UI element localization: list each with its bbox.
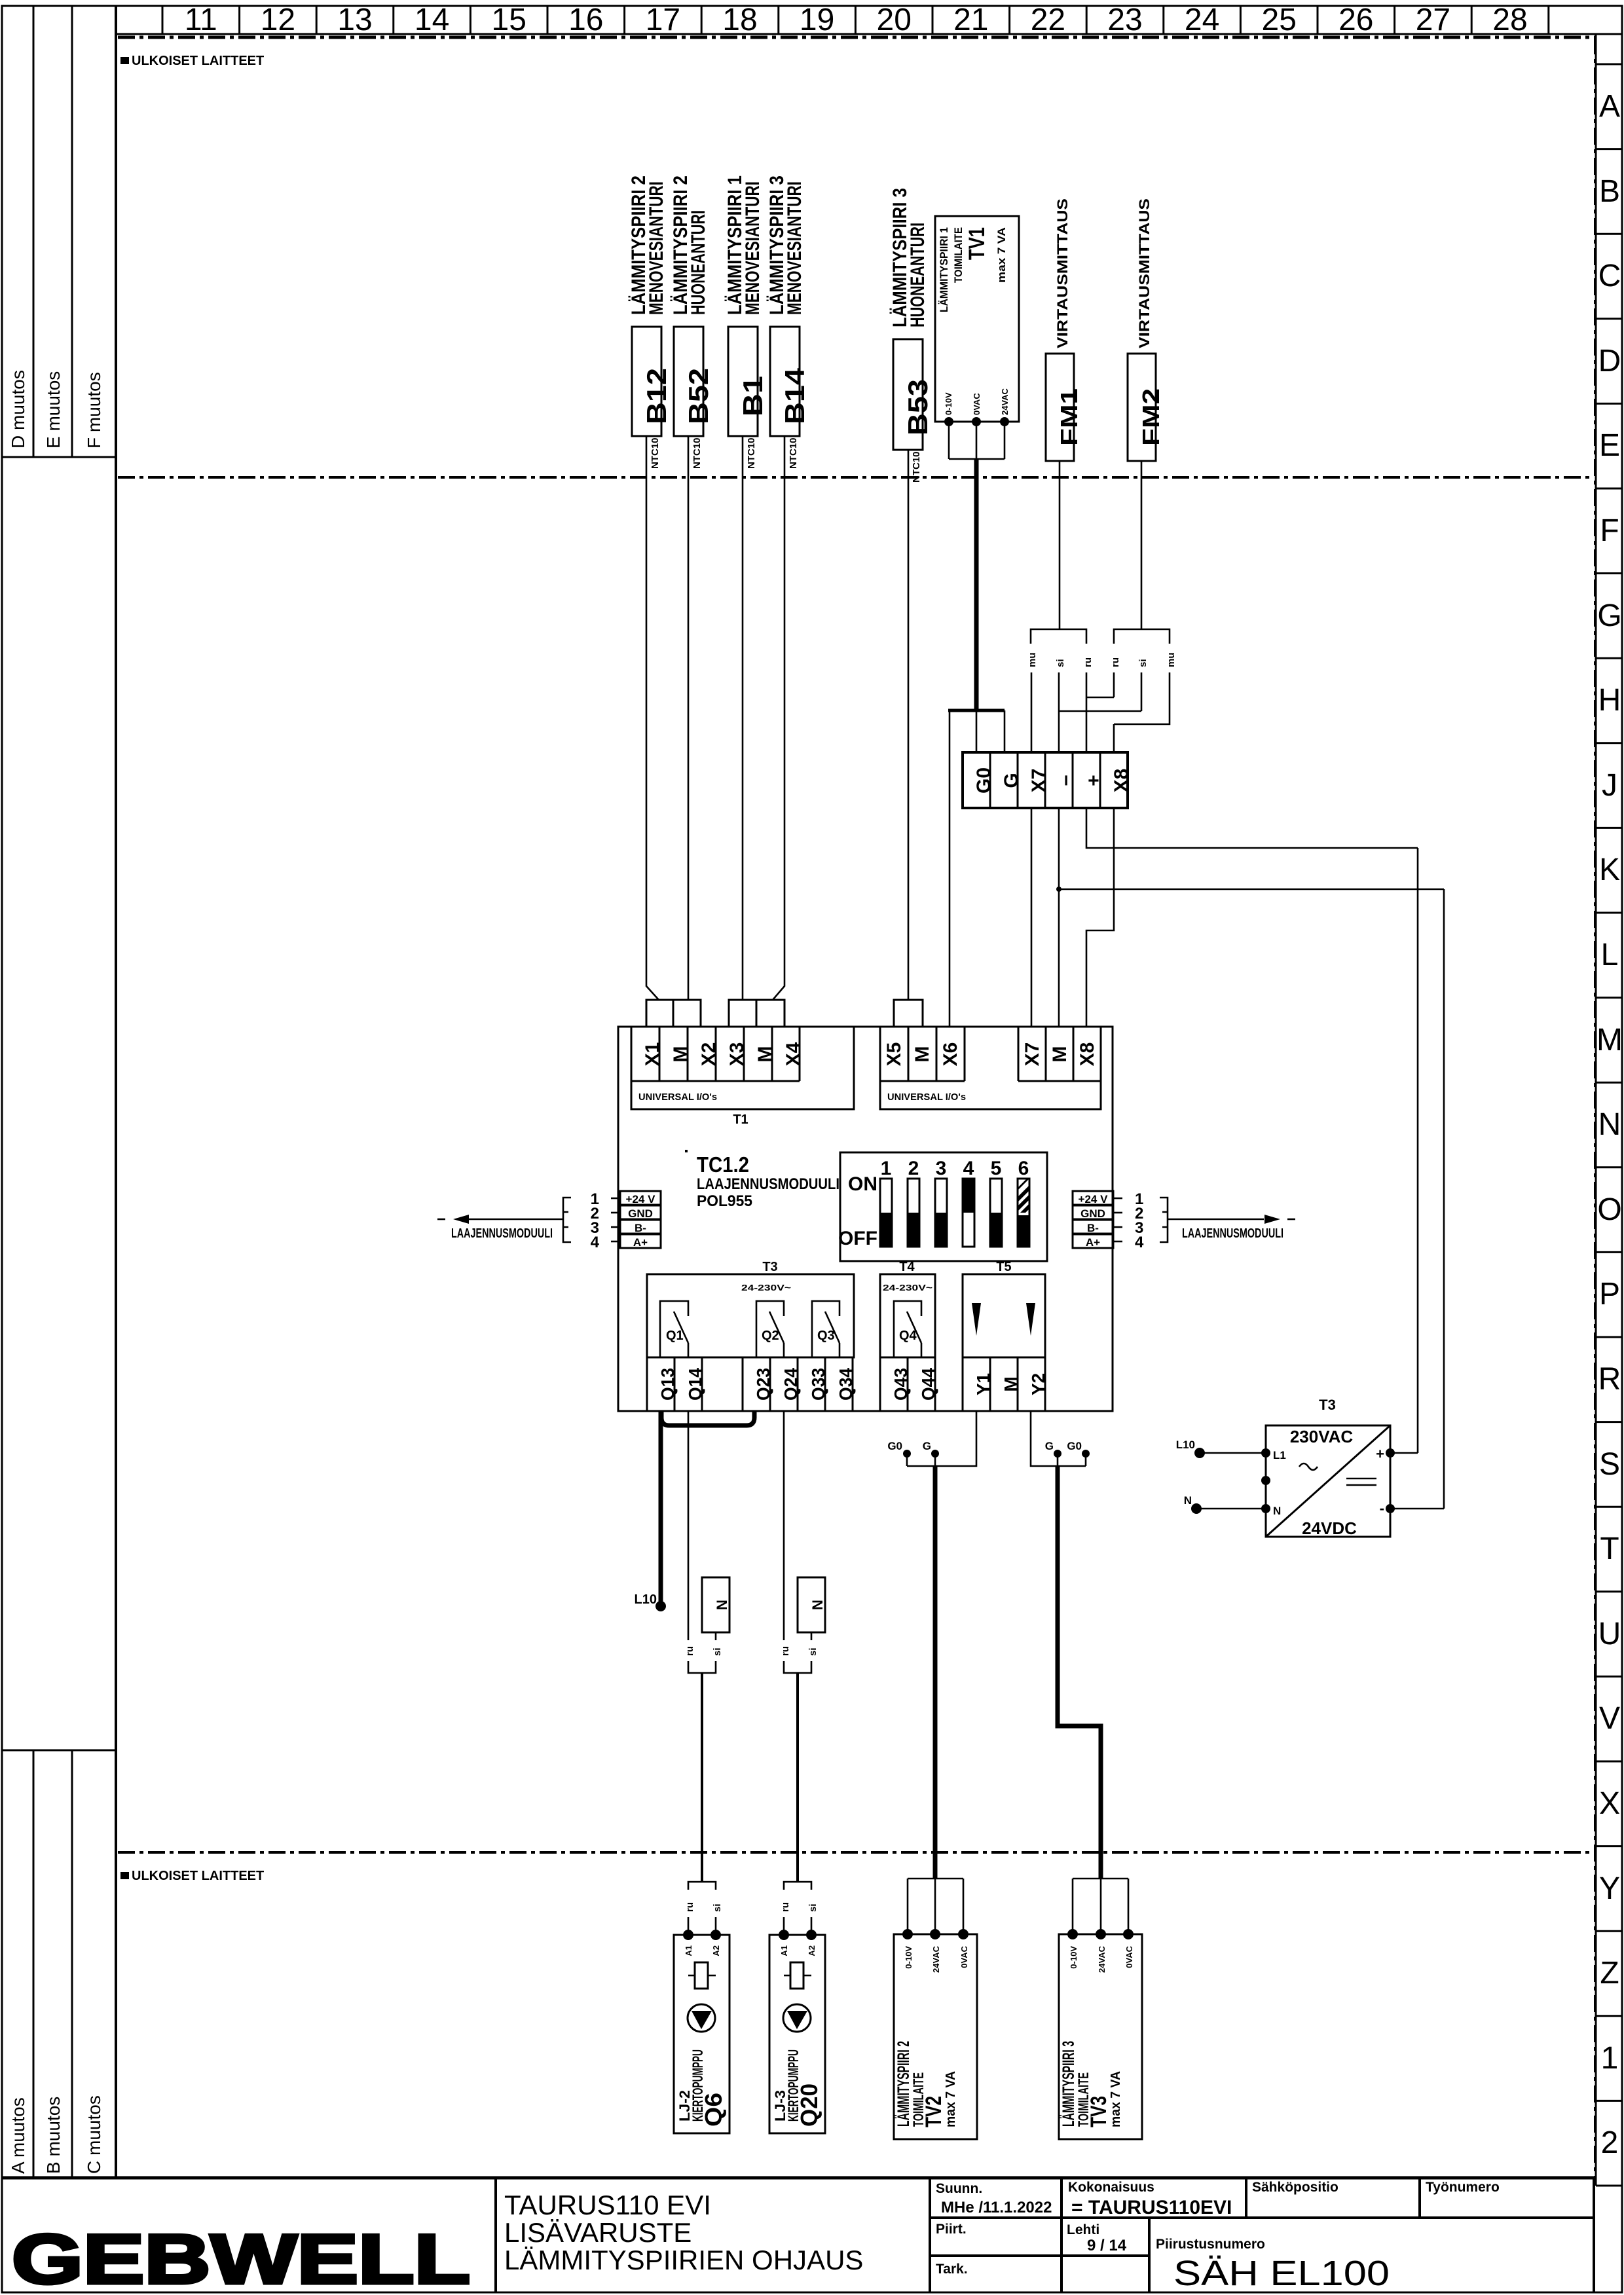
svg-text:28: 28 bbox=[1492, 3, 1527, 37]
svg-text:C: C bbox=[1598, 259, 1621, 293]
svg-text:Q24: Q24 bbox=[781, 1368, 801, 1401]
svg-text:Y2: Y2 bbox=[1028, 1373, 1048, 1395]
wire B12 to X1 bbox=[646, 436, 659, 1000]
conductor labels ru si pump2 lower bbox=[780, 1902, 819, 1912]
svg-text:X6: X6 bbox=[940, 1042, 961, 1067]
svg-text:17: 17 bbox=[646, 3, 680, 37]
svg-text:Z: Z bbox=[1600, 1956, 1619, 1991]
svg-text:Q3: Q3 bbox=[817, 1329, 835, 1343]
svg-text:M: M bbox=[670, 1046, 692, 1063]
svg-text:+: + bbox=[1376, 1446, 1384, 1462]
svg-text:FM2: FM2 bbox=[1137, 388, 1164, 446]
wires to pump1 terminals bbox=[688, 1917, 716, 1935]
wire strip X7 to module X7 bbox=[1031, 808, 1033, 1027]
svg-text:Q20: Q20 bbox=[796, 2084, 822, 2127]
svg-text:16: 16 bbox=[568, 3, 603, 37]
svg-text:M: M bbox=[912, 1046, 933, 1063]
left bus connector +24V GND B- A+ bbox=[591, 1190, 661, 1251]
terminal cells Y1 M Y2 bbox=[963, 1357, 1048, 1411]
svg-text:Sähköpositio: Sähköpositio bbox=[1252, 2180, 1338, 2195]
svg-text:Työnumero: Työnumero bbox=[1426, 2180, 1500, 2195]
svg-text:24-230V~: 24-230V~ bbox=[741, 1283, 792, 1293]
svg-text:si: si bbox=[712, 1647, 723, 1656]
svg-text:U: U bbox=[1598, 1617, 1621, 1651]
svg-text:MENOVESIANTURI: MENOVESIANTURI bbox=[742, 181, 764, 315]
svg-text:B-: B- bbox=[635, 1222, 646, 1234]
svg-text:A2: A2 bbox=[807, 1945, 817, 1956]
svg-text:N: N bbox=[1598, 1107, 1621, 1142]
actuator TV2 (lämmityspiiri 2 toimilaite) bbox=[894, 1929, 977, 2139]
svg-text:LÄMMITYSPIIRIEN OHJAUS: LÄMMITYSPIIRIEN OHJAUS bbox=[504, 2245, 863, 2275]
svg-text:E: E bbox=[1599, 428, 1620, 463]
node N to T3 N bbox=[1184, 1494, 1266, 1514]
svg-text:Q13: Q13 bbox=[657, 1368, 678, 1401]
svg-text:TOIMILAITE: TOIMILAITE bbox=[952, 227, 965, 283]
wire strip plus to T3 plus bbox=[1086, 808, 1418, 848]
title cell Suunn bbox=[936, 2181, 1052, 2216]
svg-text:mu: mu bbox=[1166, 653, 1177, 668]
svg-text:L: L bbox=[1601, 938, 1619, 972]
neutral box N pump1 bbox=[702, 1577, 730, 1632]
wire FM1 down bbox=[1059, 461, 1061, 629]
svg-text:+: + bbox=[1083, 775, 1105, 786]
svg-text:Q1: Q1 bbox=[666, 1329, 684, 1343]
wire Q14 down (ru) bbox=[688, 1411, 690, 1640]
svg-text:13: 13 bbox=[337, 3, 372, 37]
svg-text:Q6: Q6 bbox=[700, 2093, 727, 2127]
svg-text:25: 25 bbox=[1262, 3, 1297, 37]
wire FM2 down bbox=[1141, 461, 1143, 629]
svg-text:M: M bbox=[1596, 1023, 1623, 1057]
terminal strip G0 G X7 - + X8 bbox=[963, 752, 1132, 808]
wire FM2 mu to X8 bbox=[1114, 672, 1170, 752]
svg-text:F: F bbox=[1600, 513, 1619, 548]
svg-text:LAAJENNUSMODUULI: LAAJENNUSMODUULI bbox=[451, 1226, 553, 1241]
svg-text:= TAURUS110EVI: = TAURUS110EVI bbox=[1071, 2197, 1232, 2218]
svg-text:11: 11 bbox=[185, 3, 217, 37]
wire T3 plus to riser bbox=[1390, 1452, 1418, 1454]
svg-text:ru: ru bbox=[780, 1902, 791, 1912]
wire FM2 si joins minus bbox=[1059, 672, 1141, 711]
right bus connector +24V GND B- A+ bbox=[1073, 1190, 1144, 1251]
svg-text:TV2: TV2 bbox=[921, 2096, 946, 2127]
svg-text:Y: Y bbox=[1599, 1871, 1620, 1906]
svg-text:R: R bbox=[1598, 1362, 1621, 1397]
svg-text:NTC10: NTC10 bbox=[650, 437, 661, 469]
flow meter FM2 (virtausmittaus) bbox=[1128, 198, 1164, 461]
svg-text:Q14: Q14 bbox=[685, 1368, 705, 1401]
power supply T3 230VAC/24VDC bbox=[1261, 1397, 1395, 1538]
sensor B14 (lämmityspiiri 3 menovesianturi) bbox=[766, 175, 810, 469]
svg-text:B53: B53 bbox=[902, 379, 933, 435]
svg-text:VIRTAUSMITTAUS: VIRTAUSMITTAUS bbox=[1136, 198, 1153, 348]
wire T3 plus riser bbox=[1417, 848, 1419, 1453]
svg-text:F muutos: F muutos bbox=[84, 372, 104, 449]
right row-letter column bbox=[1596, 34, 1623, 2186]
conductor labels ru si pump1 lower bbox=[684, 1902, 723, 1912]
title text lines bbox=[504, 2190, 863, 2275]
svg-text:24VAC: 24VAC bbox=[1097, 1945, 1107, 1973]
svg-text:si: si bbox=[1055, 659, 1066, 667]
wire Y2 to cable gather bbox=[1031, 1411, 1086, 1466]
svg-text:5: 5 bbox=[991, 1158, 1002, 1179]
svg-text:FM1: FM1 bbox=[1056, 388, 1082, 446]
svg-text:ru: ru bbox=[1082, 657, 1094, 667]
svg-text:max 7 VA: max 7 VA bbox=[944, 2071, 958, 2127]
sensor B53 (lämmityspiiri 3 huoneanturi) bbox=[889, 188, 933, 483]
svg-text:O: O bbox=[1597, 1192, 1621, 1227]
svg-text:B1: B1 bbox=[737, 376, 768, 416]
svg-text:T5: T5 bbox=[996, 1260, 1011, 1274]
svg-text:A1: A1 bbox=[779, 1945, 789, 1956]
relay contact Q3 bbox=[812, 1301, 840, 1357]
actuator TV3 (lämmityspiiri 3 toimilaite) bbox=[1059, 1929, 1142, 2139]
svg-text:C muutos: C muutos bbox=[84, 2095, 104, 2174]
svg-text:T4: T4 bbox=[899, 1260, 915, 1274]
svg-text:24VDC: 24VDC bbox=[1302, 1518, 1357, 1538]
terminal cells Q23 Q24 Q33 Q34 bbox=[743, 1357, 856, 1411]
wire TV1 24VAC to G bbox=[1004, 710, 1006, 752]
svg-text:ru: ru bbox=[684, 1646, 695, 1656]
svg-text:21: 21 bbox=[953, 3, 988, 37]
cable TV1 (thick) down bbox=[974, 459, 979, 710]
svg-text:POL955: POL955 bbox=[697, 1192, 752, 1210]
svg-text:T3: T3 bbox=[762, 1260, 777, 1274]
wire B1 to X3 bbox=[742, 436, 744, 1000]
svg-text:L1: L1 bbox=[1273, 1449, 1286, 1461]
cable stub box B53 bbox=[894, 1000, 923, 1027]
left expansion bus bracket and arrow bbox=[437, 1198, 571, 1242]
svg-text:si: si bbox=[807, 1647, 819, 1656]
svg-text:0VAC: 0VAC bbox=[972, 393, 982, 415]
title cell Piirt bbox=[936, 2222, 967, 2237]
svg-text:M: M bbox=[1001, 1376, 1021, 1391]
svg-text:A muutos: A muutos bbox=[8, 2097, 28, 2174]
svg-text:GEBWELL: GEBWELL bbox=[12, 2220, 470, 2295]
svg-text:M: M bbox=[1049, 1046, 1071, 1063]
actuator TV1 (lämmityspiiri 1 toimilaite) bbox=[935, 216, 1019, 426]
svg-text:SÄH EL100: SÄH EL100 bbox=[1173, 2254, 1390, 2293]
svg-text:LAAJENNUSMODUULI: LAAJENNUSMODUULI bbox=[1182, 1226, 1283, 1241]
pump Q20 (LJ-3 kiertopumppu) bbox=[769, 1930, 825, 2133]
svg-text:G0: G0 bbox=[887, 1440, 902, 1452]
svg-text:4: 4 bbox=[591, 1234, 600, 1251]
flow meter FM1 (virtausmittaus) bbox=[1046, 198, 1082, 461]
svg-text:si: si bbox=[1137, 659, 1149, 667]
top ruler row bbox=[116, 3, 1622, 37]
cable pump2 down bbox=[796, 1673, 799, 1882]
label =ULKOISET LAITTEET lower bbox=[120, 1869, 264, 1883]
title cell Tark bbox=[936, 2262, 968, 2277]
svg-text:NTC10: NTC10 bbox=[788, 437, 799, 469]
sensor B52 (lämmityspiiri 2 huoneanturi) bbox=[670, 175, 714, 469]
svg-text:20: 20 bbox=[877, 3, 912, 37]
svg-text:A1: A1 bbox=[684, 1945, 693, 1956]
svg-text:X2: X2 bbox=[698, 1042, 720, 1067]
svg-text:+24 V: +24 V bbox=[1079, 1193, 1109, 1205]
conductor labels ru si pump1 bbox=[684, 1646, 723, 1656]
dash-dot separator upper (ulkoiset laitteet) bbox=[118, 476, 1594, 479]
svg-text:TC1.2: TC1.2 bbox=[697, 1152, 749, 1177]
svg-text:A+: A+ bbox=[1086, 1236, 1100, 1249]
DIP switch block bbox=[838, 1152, 1047, 1261]
svg-text:X8: X8 bbox=[1077, 1042, 1098, 1067]
svg-text:V: V bbox=[1599, 1701, 1620, 1736]
svg-text:0VAC: 0VAC bbox=[1124, 1945, 1134, 1968]
svg-text:2: 2 bbox=[1601, 2125, 1619, 2160]
supply taps G G0 for TV3 bbox=[1045, 1440, 1090, 1466]
svg-text:A+: A+ bbox=[633, 1236, 648, 1249]
svg-text:Y1: Y1 bbox=[973, 1373, 993, 1395]
svg-text:4: 4 bbox=[963, 1158, 974, 1179]
svg-text:HUONEANTURI: HUONEANTURI bbox=[688, 210, 709, 315]
svg-text:X5: X5 bbox=[883, 1042, 905, 1067]
svg-text:G: G bbox=[1045, 1440, 1054, 1452]
supply taps G0 G for TV2 bbox=[887, 1440, 939, 1466]
svg-text:G0: G0 bbox=[973, 767, 995, 794]
svg-text:−: − bbox=[1056, 775, 1077, 786]
pump Q6 (LJ-2 kiertopumppu) bbox=[674, 1930, 729, 2133]
expansion module TC1.2 outline bbox=[618, 1027, 1113, 1411]
cable pump1 down bbox=[701, 1673, 703, 1882]
svg-text:Lehti: Lehti bbox=[1067, 2222, 1099, 2237]
svg-text:E muutos: E muutos bbox=[43, 371, 64, 449]
svg-text:UNIVERSAL I/O's: UNIVERSAL I/O's bbox=[887, 1092, 966, 1103]
svg-text:Tark.: Tark. bbox=[936, 2262, 968, 2277]
svg-text:X7: X7 bbox=[1022, 1042, 1043, 1067]
wire TV1 terminals to cable gather bbox=[949, 422, 1005, 459]
svg-text:0-10V: 0-10V bbox=[944, 392, 953, 415]
svg-text:ru: ru bbox=[780, 1646, 791, 1656]
wire FM2 ru joins plus bbox=[1086, 672, 1114, 697]
relay group T4 box bbox=[880, 1260, 935, 1357]
svg-text:24VAC: 24VAC bbox=[1000, 388, 1010, 415]
cable gather bracket pump2 bbox=[784, 1661, 811, 1673]
svg-text:G: G bbox=[1597, 598, 1621, 633]
svg-text:9 / 14: 9 / 14 bbox=[1087, 2237, 1127, 2254]
svg-text:H: H bbox=[1598, 683, 1621, 718]
svg-text:0VAC: 0VAC bbox=[959, 1945, 969, 1968]
svg-text:X1: X1 bbox=[642, 1042, 663, 1067]
title cell Lehti bbox=[1067, 2222, 1127, 2254]
wire FM1 mu to X7 bbox=[1031, 672, 1033, 752]
svg-text:2: 2 bbox=[908, 1158, 919, 1179]
svg-text:NTC10: NTC10 bbox=[911, 451, 922, 483]
svg-text:-: - bbox=[1380, 1500, 1384, 1516]
cable split bracket pump2 bbox=[784, 1882, 811, 1890]
wire FM1 si to minus bbox=[1058, 672, 1060, 752]
svg-text:1: 1 bbox=[881, 1158, 892, 1179]
svg-text:si: si bbox=[712, 1903, 723, 1912]
svg-text:G0: G0 bbox=[1067, 1440, 1082, 1452]
svg-text:N: N bbox=[1273, 1505, 1281, 1517]
svg-text:NTC10: NTC10 bbox=[692, 437, 703, 469]
FM2 conductor labels ru si mu bbox=[1110, 653, 1177, 668]
wire N box pump1 down (si) bbox=[715, 1632, 717, 1640]
cable TV3 down with jog (thick) bbox=[1058, 1466, 1101, 1879]
svg-text:K: K bbox=[1599, 853, 1620, 887]
svg-text:NTC10: NTC10 bbox=[746, 437, 757, 469]
svg-text:LAAJENNUSMODUULI: LAAJENNUSMODUULI bbox=[697, 1175, 840, 1193]
svg-text:A2: A2 bbox=[711, 1945, 721, 1956]
sensor B1 (lämmityspiiri 1 menovesianturi) bbox=[724, 175, 768, 469]
svg-text:19: 19 bbox=[800, 3, 834, 37]
svg-text:A: A bbox=[1599, 89, 1620, 124]
title cell Kokonaisuus bbox=[1068, 2180, 1232, 2218]
right expansion bus bracket and arrow bbox=[1160, 1198, 1295, 1242]
svg-text:L10: L10 bbox=[635, 1592, 657, 1607]
relay contact Q4 bbox=[894, 1301, 921, 1357]
module terminal group 2 (X5 M X6 ... X7 M X8) bbox=[880, 1027, 1101, 1109]
svg-text:Q44: Q44 bbox=[918, 1368, 938, 1401]
svg-text:MENOVESIANTURI: MENOVESIANTURI bbox=[646, 181, 667, 315]
svg-text:D muutos: D muutos bbox=[8, 370, 28, 449]
svg-text:N: N bbox=[714, 1600, 730, 1610]
svg-text:HUONEANTURI: HUONEANTURI bbox=[907, 223, 929, 327]
svg-text:Piirt.: Piirt. bbox=[936, 2222, 967, 2237]
title cell Piirustusnumero bbox=[1156, 2237, 1390, 2293]
svg-text:Q34: Q34 bbox=[836, 1368, 856, 1401]
svg-text:Kokonaisuus: Kokonaisuus bbox=[1068, 2180, 1154, 2195]
svg-text:GND: GND bbox=[1080, 1207, 1105, 1220]
cable gather bracket pump1 bbox=[688, 1661, 716, 1673]
svg-text:23: 23 bbox=[1107, 3, 1142, 37]
svg-text:G: G bbox=[923, 1440, 931, 1452]
svg-text:D: D bbox=[1598, 344, 1621, 378]
terminal cells Q43 Q44 bbox=[880, 1357, 938, 1411]
GEBWELL logo bbox=[12, 2220, 470, 2295]
svg-text:VIRTAUSMITTAUS: VIRTAUSMITTAUS bbox=[1054, 198, 1071, 348]
svg-text:L10: L10 bbox=[1176, 1439, 1195, 1451]
module designation TC1.2 LAAJENNUSMODUULI POL955 bbox=[685, 1150, 840, 1210]
svg-text:230VAC: 230VAC bbox=[1290, 1427, 1354, 1446]
svg-text:P: P bbox=[1599, 1277, 1620, 1312]
cable stub box B12/B52 bbox=[646, 1000, 701, 1027]
label =ULKOISET LAITTEET upper bbox=[120, 54, 264, 68]
cable TV2 down (thick) bbox=[933, 1466, 938, 1879]
cable TV1 split bracket bbox=[948, 709, 1005, 712]
svg-text:1: 1 bbox=[1601, 2041, 1619, 2076]
svg-text:0-10V: 0-10V bbox=[904, 1946, 913, 1969]
neutral box N pump2 bbox=[798, 1577, 826, 1632]
svg-text:ru: ru bbox=[684, 1902, 695, 1912]
svg-text:N: N bbox=[809, 1600, 826, 1610]
svg-text:X7: X7 bbox=[1028, 769, 1050, 793]
svg-text:18: 18 bbox=[722, 3, 757, 37]
wire B53 to X5 bbox=[908, 450, 910, 1000]
svg-text:24: 24 bbox=[1185, 3, 1219, 37]
svg-text:UNIVERSAL I/O's: UNIVERSAL I/O's bbox=[638, 1092, 717, 1103]
svg-text:max 7 VA: max 7 VA bbox=[1109, 2071, 1123, 2127]
wire TV1 0VAC to G0 bbox=[976, 710, 978, 752]
svg-text:si: si bbox=[807, 1903, 819, 1912]
svg-text:N: N bbox=[1184, 1494, 1192, 1507]
svg-text:TV3: TV3 bbox=[1086, 2096, 1111, 2127]
svg-text:MENOVESIANTURI: MENOVESIANTURI bbox=[784, 181, 805, 315]
svg-text:X: X bbox=[1599, 1786, 1620, 1821]
svg-text:MHe /11.1.2022: MHe /11.1.2022 bbox=[941, 2199, 1052, 2216]
svg-text:LISÄVARUSTE: LISÄVARUSTE bbox=[504, 2217, 692, 2248]
svg-text:4: 4 bbox=[1135, 1234, 1144, 1251]
svg-text:S: S bbox=[1599, 1447, 1620, 1482]
wire L10 feed to Q13 (thick) bbox=[635, 1411, 666, 1611]
svg-text:B14: B14 bbox=[779, 367, 810, 424]
svg-text:Q43: Q43 bbox=[891, 1368, 911, 1401]
svg-text:3: 3 bbox=[936, 1158, 947, 1179]
cable split bracket TV2 bbox=[908, 1879, 963, 1934]
jumper Q13 to Q23 (thick) bbox=[661, 1412, 754, 1425]
svg-text:24VAC: 24VAC bbox=[931, 1945, 941, 1973]
svg-text:22: 22 bbox=[1031, 3, 1065, 37]
svg-text:B: B bbox=[1599, 174, 1620, 209]
svg-text:B12: B12 bbox=[641, 368, 672, 424]
dash-dot separator lower (ulkoiset laitteet) bbox=[118, 1851, 1594, 1854]
title block frame bbox=[2, 2178, 1594, 2292]
cable stub box B1/B14 bbox=[729, 1000, 784, 1027]
svg-text:B-: B- bbox=[1087, 1222, 1099, 1234]
wire strip X8 to module X8 bbox=[1086, 808, 1114, 1027]
svg-text:Q4: Q4 bbox=[899, 1329, 917, 1343]
left frame line bbox=[115, 6, 117, 2178]
svg-text:B52: B52 bbox=[683, 368, 714, 424]
svg-text:GND: GND bbox=[628, 1207, 653, 1220]
svg-text:26: 26 bbox=[1338, 3, 1373, 37]
title cell Sähköpositio bbox=[1252, 2180, 1338, 2195]
svg-text:12: 12 bbox=[261, 3, 295, 37]
svg-text:T: T bbox=[1600, 1532, 1619, 1566]
svg-text:X8: X8 bbox=[1111, 769, 1132, 793]
svg-text:24-230V~: 24-230V~ bbox=[883, 1283, 933, 1293]
relay contact Q1 bbox=[660, 1301, 688, 1357]
wire TV1 0-10V to X6 bbox=[949, 710, 951, 1027]
wire T3 minus riser bbox=[1443, 889, 1445, 1509]
relay group T3 box bbox=[647, 1260, 854, 1357]
svg-text:ON: ON bbox=[848, 1173, 877, 1195]
svg-text:T1: T1 bbox=[733, 1112, 748, 1127]
svg-text:ULKOISET LAITTEET: ULKOISET LAITTEET bbox=[132, 54, 264, 68]
svg-text:X4: X4 bbox=[783, 1042, 804, 1066]
wire B52 to M bbox=[688, 436, 690, 1000]
analog output group T5 box bbox=[963, 1260, 1045, 1357]
svg-text:max 7 VA: max 7 VA bbox=[995, 227, 1008, 283]
svg-text:OFF: OFF bbox=[838, 1228, 877, 1249]
svg-text:ru: ru bbox=[1110, 657, 1121, 667]
cable split bracket pump1 bbox=[688, 1882, 716, 1890]
svg-text:T3: T3 bbox=[1319, 1397, 1336, 1413]
svg-text:+24 V: +24 V bbox=[626, 1193, 656, 1205]
wire T3 minus to riser bbox=[1390, 1508, 1444, 1510]
svg-text:M: M bbox=[754, 1046, 776, 1063]
svg-text:TAURUS110 EVI: TAURUS110 EVI bbox=[504, 2190, 711, 2220]
svg-text:J: J bbox=[1602, 768, 1617, 803]
wires to pump2 terminals bbox=[784, 1917, 811, 1935]
svg-text:Piirustusnumero: Piirustusnumero bbox=[1156, 2237, 1265, 2252]
FM1 conductor labels mu si ru bbox=[1027, 653, 1094, 668]
terminal cells Q13 Q14 bbox=[647, 1357, 705, 1411]
svg-text:0-10V: 0-10V bbox=[1069, 1946, 1079, 1969]
svg-text:ULKOISET LAITTEET: ULKOISET LAITTEET bbox=[132, 1869, 264, 1883]
node L10 to T3 L1 bbox=[1176, 1439, 1266, 1458]
cable FM2 split bracket bbox=[1114, 629, 1170, 644]
svg-text:Q2: Q2 bbox=[762, 1329, 779, 1343]
svg-text:6: 6 bbox=[1018, 1158, 1029, 1179]
module terminal group T1 (X1 M X2 X3 M X4) bbox=[631, 1027, 854, 1127]
svg-text:LÄMMITYSPIIRI 1: LÄMMITYSPIIRI 1 bbox=[938, 227, 950, 312]
wire Q24 down (ru) bbox=[783, 1411, 785, 1640]
cable FM1 split bracket bbox=[1031, 629, 1086, 644]
left revision columns lower bbox=[2, 1750, 116, 2178]
left revision columns upper bbox=[2, 6, 116, 457]
